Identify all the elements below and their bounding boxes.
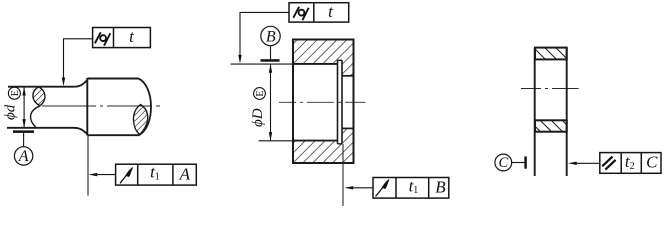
svg-text:E: E: [255, 90, 266, 96]
dimension line phi-d: [23, 87, 25, 128]
dimension arrow down: [22, 119, 25, 128]
leader arrow left: [89, 173, 98, 176]
hatch bottom band: [293, 128, 354, 163]
leader arrow left: [568, 162, 577, 165]
bore top line: [293, 63, 338, 65]
lip top line: [342, 75, 354, 77]
groove top cap: [338, 59, 343, 61]
shaft large-diameter top line: [87, 78, 138, 80]
leader arrow down: [238, 55, 241, 64]
circular runout symbol: [376, 179, 390, 196]
left break: lower S-curve: [31, 106, 40, 128]
datum A connector: [23, 133, 25, 147]
groove right wall: [341, 60, 343, 144]
cylindricity frame (left top): [93, 28, 151, 48]
leader arrow left: [345, 186, 354, 189]
leader from cylindricity frame: [240, 12, 289, 55]
datum B circle: [261, 26, 280, 45]
circular runout frame (left bottom): [116, 164, 197, 185]
rim top band: [535, 48, 567, 60]
shaft large-diameter bottom line: [88, 134, 140, 136]
svg-text:1: 1: [155, 171, 160, 182]
svg-text:C: C: [498, 155, 508, 171]
bore bottom line: [293, 140, 338, 142]
groove left wall: [337, 60, 339, 144]
centerline disc axis: [521, 88, 579, 90]
left face line: [534, 48, 536, 176]
sleeve outer outline: [293, 40, 354, 164]
leader from cylindricity frame: [64, 39, 93, 78]
dimension arrow down: [269, 132, 272, 141]
circular runout frame (middle bottom): [373, 178, 449, 199]
svg-text:C: C: [646, 153, 658, 172]
dimension arrow up: [22, 87, 25, 96]
cylindricity symbol: [293, 7, 308, 20]
svg-text:ϕd: ϕd: [3, 104, 19, 120]
shoulder face line: [86, 78, 88, 136]
dimension text phi-d-E rotated: [3, 87, 22, 120]
datum A circle: [14, 147, 32, 165]
svg-text:1: 1: [413, 185, 418, 196]
parallelism symbol: [602, 157, 615, 170]
leader from runout frame: [96, 174, 116, 176]
shaft small-diameter top line with fillet: [8, 80, 87, 87]
svg-text:ϕD: ϕD: [250, 108, 266, 127]
face extension line below sleeve: [342, 144, 344, 206]
rim bottom band: [535, 120, 567, 131]
extension line bore bottom left: [259, 140, 293, 142]
right break: end arc of large cylinder: [139, 79, 152, 135]
datum C connector: [512, 162, 526, 164]
datum C bar: [524, 156, 526, 168]
leader from runout frame: [352, 187, 373, 189]
hatch top band: [293, 40, 354, 76]
dimension arrow up: [269, 64, 272, 73]
datum A bar: [13, 130, 34, 133]
circular runout symbol: [120, 167, 133, 183]
groove bottom cap: [338, 143, 343, 145]
cylindricity symbol: [95, 32, 110, 45]
svg-text:B: B: [266, 28, 276, 45]
parallelism frame (right): [600, 153, 661, 174]
svg-text:A: A: [179, 165, 191, 184]
dimension text phi-D-E rotated: [250, 88, 266, 127]
svg-text:2: 2: [630, 161, 635, 172]
shaft small-diameter bottom line with fillet: [7, 128, 87, 134]
leader arrow down: [62, 78, 65, 87]
centerline shaft axis: [42, 105, 160, 107]
datum B bar: [261, 59, 280, 62]
left break: hatched lens upper half: [33, 87, 45, 106]
dimension line phi-D: [270, 64, 272, 141]
right face line: [566, 48, 568, 176]
right break: hatched lens lower half: [133, 105, 147, 135]
extension line bore top left: [231, 63, 293, 65]
centerline bore axis: [279, 101, 366, 103]
shoulder face extension line: [87, 136, 89, 196]
svg-text:A: A: [18, 148, 29, 165]
leader from parallelism frame: [576, 162, 600, 164]
svg-text:B: B: [435, 178, 446, 197]
datum B connector: [270, 46, 272, 60]
cylindricity frame (middle top): [289, 3, 349, 22]
svg-text:E: E: [10, 90, 21, 96]
lip bottom line: [342, 127, 354, 129]
datum C circle: [495, 154, 512, 171]
